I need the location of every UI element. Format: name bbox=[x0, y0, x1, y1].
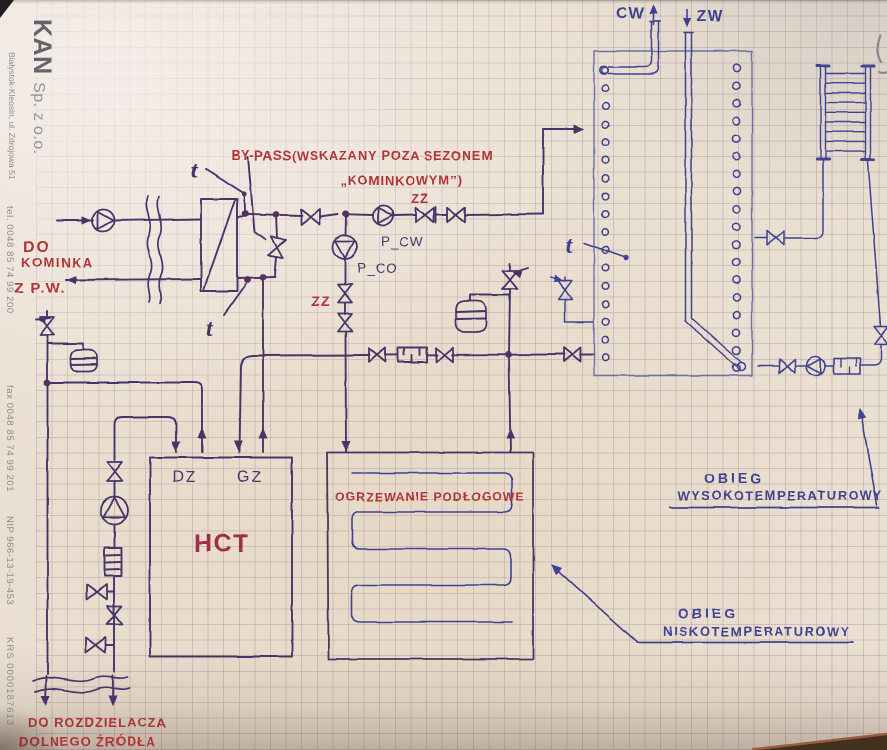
wire brine supply bottom arrow bbox=[109, 676, 117, 705]
valve V6 bbox=[564, 348, 581, 362]
expansion vessel EV1 bbox=[70, 350, 97, 372]
valve V10 bbox=[874, 327, 887, 345]
label ZZ left bbox=[311, 293, 331, 309]
svg-text:WYSOKOTEMPERATUROWY: WYSOKOTEMPERATUROWY bbox=[678, 488, 883, 503]
pump P2 brine bbox=[101, 497, 128, 524]
wire vessel EV1 bbox=[49, 344, 84, 351]
svg-text:OBIEG: OBIEG bbox=[678, 605, 738, 621]
drain valve D2 bbox=[86, 638, 114, 653]
junction dot low line bbox=[505, 351, 512, 358]
svg-text:GZ: GZ bbox=[237, 469, 263, 486]
letterhead NIP bbox=[4, 516, 15, 605]
underline with arrow nisko bbox=[552, 565, 853, 643]
letterhead KAN logo bbox=[27, 19, 56, 155]
svg-text:P_CO: P_CO bbox=[357, 261, 398, 276]
wire tank to valve bbox=[758, 365, 779, 367]
wire corner down to HCT bbox=[235, 366, 243, 452]
label BY-PASS annotation line2 bbox=[340, 173, 462, 188]
heat exchanger U1 bbox=[201, 199, 237, 291]
valve V3 bbox=[447, 208, 465, 223]
pipe break bottom bbox=[33, 677, 130, 693]
label GZ bbox=[237, 469, 263, 486]
junction dot brine return bbox=[44, 379, 51, 386]
junction dot GZ riser bbox=[260, 274, 267, 281]
label DZ bbox=[172, 469, 197, 486]
label DOLNEGO ZRODLA bbox=[19, 734, 157, 749]
wire return heat-exchanger to fireplace bbox=[66, 277, 201, 284]
svg-text:ZZ: ZZ bbox=[311, 293, 331, 309]
label DO ROZDZIELACZA bbox=[28, 715, 167, 730]
junction dot bypass bbox=[273, 211, 280, 218]
letterhead KRS bbox=[4, 637, 15, 726]
valve V9 bbox=[767, 231, 784, 245]
svg-text:DZ: DZ bbox=[172, 469, 197, 486]
label CW with arrow bbox=[616, 5, 657, 24]
wire by-pass pointer bbox=[248, 157, 266, 240]
wire vessel EV2 bbox=[470, 295, 509, 301]
label BY-PASS annotation line1 bbox=[231, 148, 493, 163]
wire supply from fireplace bbox=[57, 217, 93, 224]
wire DZ in from brine pump bbox=[115, 417, 180, 460]
wire radiator supply bbox=[755, 161, 823, 238]
svg-text:NISKOTEMPERATUROWY: NISKOTEMPERATUROWY bbox=[663, 624, 851, 639]
valve Z2 vertical bbox=[338, 303, 352, 332]
drain valve D1 bbox=[87, 585, 115, 600]
tank left coil bbox=[602, 67, 609, 361]
label OBIEG NISKOTEMPERATUROWY bbox=[663, 605, 851, 639]
tank HCT box bbox=[150, 458, 292, 657]
svg-text:OBIEG: OBIEG bbox=[704, 470, 764, 486]
wire return to pump line bbox=[861, 345, 881, 366]
label P_CO bbox=[357, 261, 398, 276]
wire radiator return bbox=[868, 161, 881, 326]
valve V1 bbox=[301, 210, 338, 225]
filter F2 bbox=[105, 548, 122, 576]
svg-text:(WSKAZANY POZA SEZONEM: (WSKAZANY POZA SEZONEM bbox=[292, 148, 493, 163]
svg-text:OGRZEWANIE PODŁOGOWE: OGRZEWANIE PODŁOGOWE bbox=[335, 490, 525, 504]
wire exchanger to valves bbox=[237, 214, 302, 218]
wire pump to valve ZZ bbox=[394, 214, 415, 217]
wire pump to valves bbox=[344, 259, 346, 284]
pump P3 circulation bbox=[806, 357, 825, 376]
sensor t top bbox=[191, 158, 247, 210]
photo mark top right bbox=[877, 36, 887, 73]
svg-text:„KOMINKOWYM”): „KOMINKOWYM”) bbox=[340, 173, 462, 188]
valve Z1 vertical bbox=[338, 285, 352, 303]
svg-text:Z P.W.: Z P.W. bbox=[14, 280, 66, 297]
wire pump to valve bbox=[795, 365, 834, 367]
wire riser to tank coil inlet bbox=[543, 125, 583, 214]
svg-text:DOLNEGO ŹRÓDŁA: DOLNEGO ŹRÓDŁA bbox=[19, 734, 157, 749]
label Z P.W. bbox=[14, 280, 66, 297]
underline with arrow wysoko bbox=[670, 409, 879, 508]
wire to pump P_CW bbox=[349, 213, 373, 216]
radiator towel rail bbox=[817, 66, 874, 160]
junction dot t-tap bottom bbox=[244, 277, 251, 284]
expansion vessel EV2 bbox=[456, 301, 486, 332]
label OBIEG WYSOKOTEMPERATUROWY bbox=[678, 470, 883, 503]
heat meter F3 bbox=[834, 359, 860, 375]
label ZZ top bbox=[411, 191, 429, 206]
letterhead fax bbox=[4, 385, 15, 492]
wire DZ out to brine return bbox=[48, 383, 206, 453]
wire junction down to floor heating bbox=[507, 357, 515, 452]
svg-text:t: t bbox=[191, 158, 199, 184]
letterhead address bbox=[7, 52, 17, 180]
svg-text:DO ROZDZIELACZA: DO ROZDZIELACZA bbox=[28, 715, 167, 730]
letterhead tel bbox=[4, 206, 15, 314]
valve V5 bbox=[436, 348, 453, 362]
svg-text:ZW: ZW bbox=[696, 8, 724, 25]
wire exchanger bottom to by-pass bbox=[237, 278, 275, 279]
svg-text:HCT: HCT bbox=[194, 530, 250, 558]
pipe CW outlet bbox=[600, 21, 660, 75]
sensor t tank bbox=[566, 233, 629, 260]
label OGRZEWANIE PODLOGOWE bbox=[335, 490, 525, 504]
safety valve SV1 bbox=[36, 311, 54, 335]
svg-text:t: t bbox=[566, 233, 574, 259]
valve by-pass bbox=[268, 215, 286, 276]
sensor t bottom bbox=[206, 284, 246, 342]
valve V7 bbox=[107, 462, 122, 481]
wire GZ riser bbox=[259, 280, 267, 452]
photo table edge bottom right bbox=[752, 734, 887, 750]
svg-text:DO: DO bbox=[23, 239, 51, 256]
tank right coil bbox=[733, 64, 740, 371]
svg-text:ZZ: ZZ bbox=[411, 191, 429, 206]
wire pump to heat exchanger top bbox=[114, 219, 201, 221]
valve V2 zone bbox=[416, 207, 436, 223]
safety valve SV3 bbox=[551, 276, 593, 322]
safety valve SV2 bbox=[503, 264, 529, 289]
wire filter down bbox=[113, 576, 115, 672]
pipe ZW dip tube bbox=[684, 33, 746, 371]
svg-text:CW: CW bbox=[616, 5, 646, 22]
storage tank bbox=[594, 51, 752, 376]
pipe break marks bbox=[147, 196, 163, 303]
floor heating box bbox=[327, 453, 533, 660]
wire junction to pump P_CO bbox=[345, 216, 348, 235]
label P_CW bbox=[381, 234, 424, 249]
wire between valves bbox=[434, 214, 447, 216]
svg-text:t: t bbox=[206, 316, 214, 342]
wire P_CO down to floor heating bbox=[342, 332, 350, 452]
valve V11 bbox=[779, 359, 795, 373]
label ZW with arrow bbox=[684, 8, 724, 26]
svg-text:P_CW: P_CW bbox=[381, 234, 424, 249]
pump P_CW bbox=[374, 206, 394, 226]
pump P1 fireplace loop bbox=[92, 210, 114, 232]
wire valves to tank riser bbox=[465, 214, 543, 215]
label HCT bbox=[194, 530, 250, 558]
floor heating coil bbox=[352, 473, 512, 622]
wire brine return pipe bbox=[41, 336, 49, 705]
wire SV2 to junction bbox=[509, 289, 510, 354]
label DO KOMINKA bbox=[21, 239, 94, 270]
valve V4 bbox=[369, 348, 386, 362]
wire brine supply top bbox=[114, 481, 116, 497]
svg-text:BY-PASS: BY-PASS bbox=[231, 148, 291, 163]
svg-text:KOMINKA: KOMINKA bbox=[21, 255, 94, 270]
junction dot t-tap bbox=[242, 210, 249, 217]
pump P_CO bbox=[333, 235, 357, 259]
junction dot P_CO branch bbox=[343, 210, 350, 217]
heat meter F1 bbox=[398, 348, 427, 363]
wire pump to filter bbox=[114, 524, 116, 548]
wire low line to tank bbox=[241, 355, 594, 369]
valve V8 bbox=[107, 606, 122, 624]
